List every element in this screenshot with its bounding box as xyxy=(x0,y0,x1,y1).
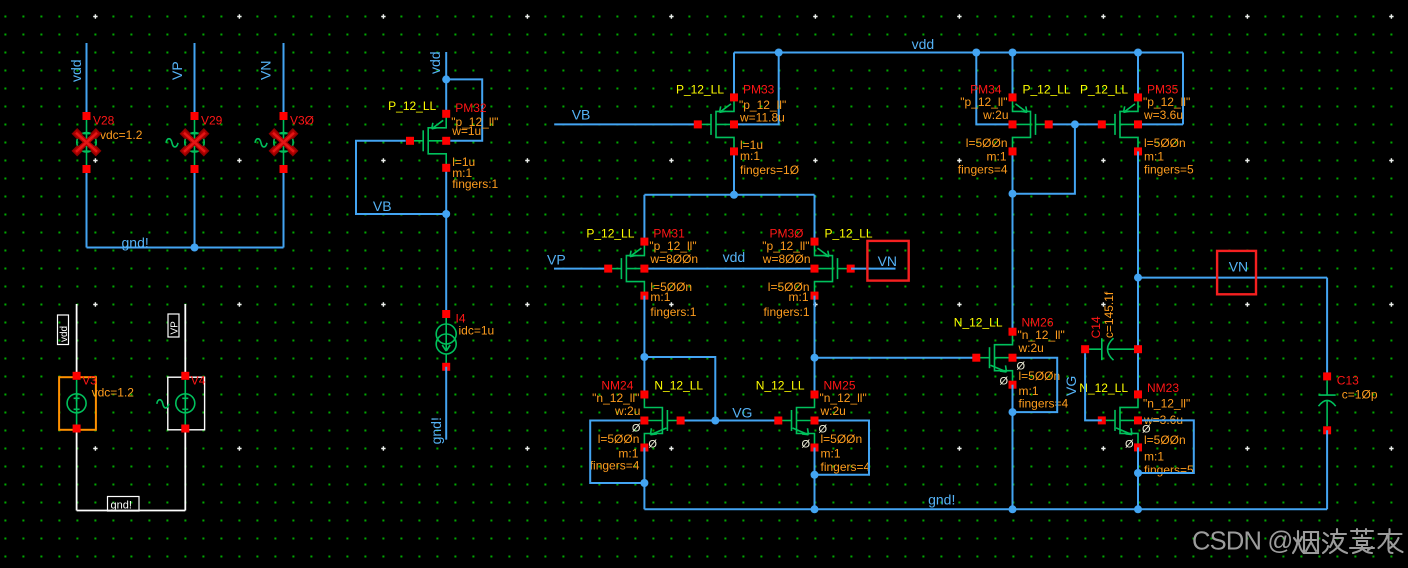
wire VP (V4 top, white) xyxy=(184,304,186,376)
wire PM31 drain down xyxy=(643,296,645,395)
svg-text:V28: V28 xyxy=(93,113,115,127)
wire NM25 bulk-source box xyxy=(815,421,870,475)
watermark chinese char 2 (bo) xyxy=(1323,529,1347,553)
svg-text:"p_12_ll": "p_12_ll" xyxy=(1143,95,1190,109)
svg-text:m:1: m:1 xyxy=(650,290,670,304)
svg-text:VG: VG xyxy=(1063,376,1079,396)
svg-text:m:1: m:1 xyxy=(1144,149,1164,163)
svg-text:gnd!: gnd! xyxy=(122,235,149,251)
wire VN to C13 xyxy=(1138,277,1327,279)
svg-text:N_12_LL: N_12_LL xyxy=(654,379,703,393)
node tail junction xyxy=(730,191,738,199)
svg-text:vdd: vdd xyxy=(427,51,443,74)
svg-text:VN: VN xyxy=(1229,259,1248,275)
svg-text:m:1: m:1 xyxy=(821,447,841,461)
voltage source V28 xyxy=(72,112,143,173)
wire tail horizontal xyxy=(644,194,814,196)
svg-text:VB: VB xyxy=(373,198,392,214)
svg-text:gnd!: gnd! xyxy=(928,492,955,508)
wire NM26 bulk-source box xyxy=(1013,358,1058,412)
svg-text:w:2u: w:2u xyxy=(614,404,640,418)
wire gate-drain loop VB (PM32) xyxy=(356,141,446,214)
svg-text:"n_12_ll": "n_12_ll" xyxy=(1018,328,1065,342)
svg-text:fingers=4: fingers=4 xyxy=(1019,397,1069,411)
transistor PM34 (PMOS p_12_ll) xyxy=(958,82,1071,176)
svg-text:P_12_LL: P_12_LL xyxy=(388,99,436,113)
svg-text:w:2u: w:2u xyxy=(820,404,846,418)
wire PM30 drain down xyxy=(814,296,816,395)
watermark chinese char 4 (yi) xyxy=(1379,529,1403,553)
svg-text:P_12_LL: P_12_LL xyxy=(825,227,873,241)
transistor NM23 (NMOS n_12_ll) xyxy=(1079,381,1194,477)
svg-text:VG: VG xyxy=(732,405,752,421)
svg-text:N_12_LL: N_12_LL xyxy=(1079,381,1128,395)
svg-text:VP: VP xyxy=(169,321,180,335)
svg-text:w:2u: w:2u xyxy=(1018,341,1044,355)
transistor PM33 (PMOS p_12_ll) xyxy=(676,82,799,177)
svg-text:w=3.6u: w=3.6u xyxy=(1143,108,1183,122)
wire PM34 bulk to rail xyxy=(976,53,1012,125)
selection box around VN xyxy=(867,241,908,281)
svg-text:l=5ØØn: l=5ØØn xyxy=(966,136,1008,150)
svg-text:VN: VN xyxy=(258,61,274,80)
svg-text:fingers=4: fingers=4 xyxy=(821,460,871,474)
wire vdd rail xyxy=(734,52,1183,54)
wire V3 to gnd (white) xyxy=(76,429,78,511)
wire PM34 drain down to NM26 xyxy=(1012,151,1014,331)
wire VB to PM33 gate xyxy=(554,123,698,125)
svg-text:PM33: PM33 xyxy=(743,82,775,96)
svg-text:Ø: Ø xyxy=(1125,438,1134,450)
net label gnd! boxed xyxy=(108,497,140,512)
svg-text:fingers=4: fingers=4 xyxy=(590,458,640,472)
transistor NM24 (NMOS n_12_ll) xyxy=(590,379,704,473)
svg-text:V29: V29 xyxy=(201,113,223,127)
wire vdd (V3 top, white) xyxy=(76,304,78,376)
transistor NM26 (NMOS n_12_ll) xyxy=(954,316,1069,411)
svg-text:V4: V4 xyxy=(191,373,206,387)
svg-text:w=11.8u: w=11.8u xyxy=(739,110,785,124)
svg-text:vdd: vdd xyxy=(59,326,70,342)
capacitor C13 xyxy=(1319,372,1378,434)
svg-text:"n_12_ll": "n_12_ll" xyxy=(1143,396,1190,410)
transistor NM25 (NMOS n_12_ll) xyxy=(756,379,871,475)
node gate junction xyxy=(1071,120,1079,128)
svg-text:fingers:1: fingers:1 xyxy=(763,305,809,319)
svg-text:fingers=4: fingers=4 xyxy=(958,162,1008,176)
node PM32 drain junction xyxy=(442,210,450,218)
wire PM30 drain to NM26 gate xyxy=(815,357,977,359)
wire PM31 drain branch to VG xyxy=(644,357,715,421)
svg-text:Ø: Ø xyxy=(802,439,811,451)
node PM32 vdd junction xyxy=(442,75,450,83)
wire diff pair bulk (vdd) xyxy=(644,268,814,270)
svg-text:fingers=5: fingers=5 xyxy=(1144,162,1194,176)
net label VP boxed xyxy=(168,314,179,337)
wire NM23 bulk-source box xyxy=(1138,420,1194,473)
voltage source V30 xyxy=(255,112,314,173)
wire NM23 gate to C14 xyxy=(1085,353,1102,420)
wire PM33 drain to tail xyxy=(733,151,735,194)
svg-text:P_12_LL: P_12_LL xyxy=(586,227,634,241)
svg-text:m:1: m:1 xyxy=(1144,449,1164,463)
watermark chinese char 1 (yan) xyxy=(1293,531,1318,553)
wire VP to PM31 gate xyxy=(554,268,608,270)
svg-text:VP: VP xyxy=(547,252,566,268)
node PM31 drain junction xyxy=(640,353,648,361)
svg-text:P_12_LL: P_12_LL xyxy=(1023,82,1071,96)
svg-text:vdd: vdd xyxy=(68,59,84,82)
svg-text:w:2u: w:2u xyxy=(982,108,1008,122)
wire C13 top xyxy=(1326,278,1328,377)
wire vdd stub (PM32 top) xyxy=(445,52,447,114)
wire PM30 gate to VN label xyxy=(851,268,896,270)
wire gate feedback to PM34 drain xyxy=(1013,124,1075,193)
svg-text:Ø: Ø xyxy=(1000,376,1009,388)
transistor PM31 (PMOS p_12_ll) xyxy=(586,227,698,320)
svg-text:VP: VP xyxy=(169,61,185,80)
svg-text:C13: C13 xyxy=(1337,373,1359,387)
wire PM33 bulk box xyxy=(738,53,779,125)
wire C13 to gnd xyxy=(1326,430,1328,509)
svg-text:Ø: Ø xyxy=(632,423,641,435)
wire vdd stub (V28 top) xyxy=(86,43,88,116)
svg-text:c=1Øp: c=1Øp xyxy=(1342,388,1378,402)
svg-text:idc=1u: idc=1u xyxy=(459,324,495,338)
svg-text:VN: VN xyxy=(878,253,897,269)
wire NM23 source to gnd xyxy=(1137,447,1139,509)
wire NM25 source to gnd xyxy=(814,448,816,510)
wire tail to PM31 source xyxy=(643,195,645,242)
wire PM32 drain down xyxy=(445,168,447,314)
svg-text:fingers:1: fingers:1 xyxy=(452,177,498,191)
wire VN stub (V30 top) xyxy=(283,43,285,116)
svg-text:c=145.1f: c=145.1f xyxy=(1102,291,1116,338)
wire V4 to gnd (white) xyxy=(184,429,186,511)
wire tail to PM30 source xyxy=(814,195,816,242)
capacitor C14 xyxy=(1081,291,1142,360)
node gnd junction xyxy=(191,244,199,252)
node vdd junction at PM34 source xyxy=(1009,49,1017,57)
wire NM24 source to gnd xyxy=(643,448,645,510)
svg-text:NM23: NM23 xyxy=(1147,381,1179,395)
wire PM35 source to rail xyxy=(1137,53,1139,98)
svg-text:Ø: Ø xyxy=(648,439,657,451)
svg-text:P_12_LL: P_12_LL xyxy=(676,82,724,96)
transistor PM35 (PMOS p_12_ll) xyxy=(1080,82,1194,176)
node gnd junction at NM23 xyxy=(1134,505,1142,513)
node vdd junction at PM33 box xyxy=(775,49,783,57)
svg-text:Ø: Ø xyxy=(819,424,828,436)
wire gnd horizontal (white) xyxy=(77,510,186,512)
svg-text:"n_12_ll": "n_12_ll" xyxy=(592,391,639,405)
node vdd junction at PM35 source xyxy=(1134,49,1142,57)
svg-text:Ø: Ø xyxy=(1017,361,1026,373)
watermark chinese char 3 (suo) xyxy=(1350,529,1374,553)
wire V29 to gnd xyxy=(194,169,196,248)
voltage source V29 xyxy=(166,112,223,173)
wire PM34 source to rail xyxy=(1012,53,1014,98)
svg-text:"p_12_ll": "p_12_ll" xyxy=(960,95,1007,109)
svg-text:vdd: vdd xyxy=(723,249,746,265)
wire gnd rail xyxy=(644,508,1327,510)
node NM26 source junction xyxy=(1009,408,1017,416)
wire VP stub (V29 top) xyxy=(194,43,196,116)
node NM23 source junction xyxy=(1134,469,1142,477)
wire VG between gates xyxy=(681,420,779,422)
svg-text:PM32: PM32 xyxy=(455,101,487,115)
wire PM34-PM35 gate xyxy=(1049,123,1102,125)
current source I4 xyxy=(436,310,494,371)
svg-text:C14: C14 xyxy=(1089,316,1103,338)
svg-text:vdc=1.2: vdc=1.2 xyxy=(100,128,143,142)
svg-text:"p_12_ll": "p_12_ll" xyxy=(762,239,809,253)
svg-text:m:1: m:1 xyxy=(986,149,1006,163)
svg-text:V3Ø: V3Ø xyxy=(290,113,314,127)
svg-text:fingers=5: fingers=5 xyxy=(1144,463,1194,477)
svg-text:fingers=1Ø: fingers=1Ø xyxy=(740,163,799,177)
svg-text:fingers:1: fingers:1 xyxy=(650,305,696,319)
svg-text:"n_12_ll": "n_12_ll" xyxy=(820,391,867,405)
wire V28 to gnd xyxy=(86,169,88,248)
wire NM26 source to gnd xyxy=(1012,385,1014,510)
wire PM35 drain down to NM23 xyxy=(1137,151,1139,394)
svg-text:l=5ØØn: l=5ØØn xyxy=(1144,136,1186,150)
svg-text:w=1u: w=1u xyxy=(451,124,481,138)
wire V30 to gnd xyxy=(283,169,285,248)
svg-text:VB: VB xyxy=(572,107,591,123)
svg-text:Ø: Ø xyxy=(1142,423,1151,435)
svg-text:gnd!: gnd! xyxy=(111,499,132,511)
node gnd junction at NM26 xyxy=(1009,505,1017,513)
svg-text:w=8ØØn: w=8ØØn xyxy=(762,252,811,266)
node VN junction xyxy=(1134,274,1142,282)
svg-text:w=8ØØn: w=8ØØn xyxy=(649,252,698,266)
svg-text:N_12_LL: N_12_LL xyxy=(756,379,805,393)
node gnd junction at NM25 xyxy=(811,505,819,513)
svg-text:P_12_LL: P_12_LL xyxy=(1080,82,1128,96)
wire vdd-to-bulk box (PM32) xyxy=(446,79,482,140)
voltage source V3 xyxy=(59,372,134,433)
wire NM24 bulk-source box xyxy=(590,421,644,484)
svg-text:m:1: m:1 xyxy=(740,149,760,163)
svg-text:vdc=1.2: vdc=1.2 xyxy=(92,385,135,399)
node NM24 source junction xyxy=(640,479,648,487)
transistor PM30 (PMOS p_12_ll) xyxy=(762,227,873,320)
svg-text:vdd: vdd xyxy=(912,36,935,52)
wire PM33 source to rail xyxy=(733,53,735,98)
svg-text:N_12_LL: N_12_LL xyxy=(954,316,1003,330)
svg-text:CSDN @: CSDN @ xyxy=(1192,528,1292,556)
selection box around VN (right) xyxy=(1217,251,1256,294)
transistor PM32 (PMOS p_12_ll) xyxy=(388,99,498,191)
node VG junction xyxy=(711,417,719,425)
svg-text:gnd!: gnd! xyxy=(428,417,444,444)
node NM25 source junction xyxy=(811,471,819,479)
svg-text:"p_12_ll": "p_12_ll" xyxy=(649,239,696,253)
voltage source V4 xyxy=(157,372,206,433)
node PM34 drain junction xyxy=(1009,190,1017,198)
wire I4 to gnd stub xyxy=(445,367,447,440)
wire gnd! horizontal xyxy=(87,247,284,249)
net label vdd boxed xyxy=(58,315,69,345)
svg-text:m:1: m:1 xyxy=(788,290,808,304)
node PM30 drain junction xyxy=(811,354,819,362)
node vdd junction at PM34 bulk xyxy=(972,49,980,57)
